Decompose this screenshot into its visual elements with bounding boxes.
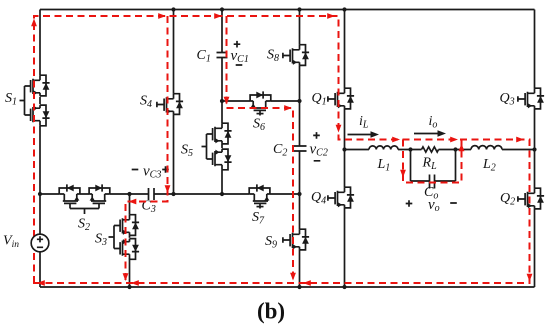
transistor S7 (horizontal on y=194, drain left) bbox=[249, 184, 270, 226]
svg-text:(b): (b) bbox=[257, 299, 285, 324]
transistor Q4 bbox=[311, 187, 354, 208]
wire red S4-S3 branch bbox=[126, 16, 168, 283]
transistor S1 (back-to-back pair on left rail) bbox=[5, 75, 50, 126]
svg-text:iL: iL bbox=[359, 114, 369, 131]
svg-text:Q2: Q2 bbox=[500, 191, 515, 208]
wire right rail segments around Q3 Q2 bbox=[534, 10, 536, 288]
wire line y=194 bbox=[40, 193, 300, 195]
svg-text:Q4: Q4 bbox=[311, 190, 326, 207]
wire S8/C2/S9 branch x=299.5 bbox=[299, 10, 301, 288]
transistor S3 (back-to-back pair, x=129.5) bbox=[95, 215, 139, 260]
label io with arrow bbox=[414, 114, 446, 137]
svg-text:io: io bbox=[429, 114, 438, 131]
wire red main loop bbox=[34, 16, 530, 283]
svg-text:vC1: vC1 bbox=[231, 48, 249, 65]
node dots y=194 bbox=[38, 192, 302, 196]
node dots top rail bbox=[171, 7, 346, 11]
resistor RL bbox=[422, 147, 439, 172]
inductor L1 bbox=[369, 146, 398, 174]
transistor S5 (back-to-back pair on x=222) bbox=[181, 123, 232, 170]
label vo bbox=[406, 197, 457, 214]
svg-text:Q3: Q3 bbox=[500, 91, 515, 108]
label vC2 bbox=[310, 132, 328, 161]
wire top rail bbox=[40, 9, 535, 11]
node dots y=101 bbox=[220, 99, 302, 103]
transistor S6 (horizontal on y=101, drain right) bbox=[250, 91, 271, 133]
wire output line y=149.5 bbox=[345, 149, 535, 151]
source Vin bbox=[3, 234, 49, 252]
wire RL/Co parallel frame bbox=[411, 150, 456, 182]
capacitor C1 bbox=[197, 48, 228, 65]
transistor Q2 bbox=[500, 188, 544, 209]
svg-text:C2: C2 bbox=[273, 142, 287, 159]
label iL with arrow bbox=[348, 114, 380, 138]
wire S4 branch x=173.5 bbox=[173, 10, 175, 195]
svg-text:Vin: Vin bbox=[3, 234, 19, 251]
svg-text:S4: S4 bbox=[140, 94, 152, 111]
capacitor C2 bbox=[273, 142, 307, 159]
node dots output line bbox=[342, 147, 536, 151]
wire mid line y=101 bbox=[222, 100, 300, 102]
transistor Q1 bbox=[312, 88, 355, 109]
capacitor C3 bbox=[142, 188, 156, 215]
svg-text:C1: C1 bbox=[197, 48, 211, 65]
transistor S2 (horizontal back-to-back pair on y=194) bbox=[59, 184, 110, 233]
svg-text:vC3: vC3 bbox=[143, 164, 161, 181]
capacitor Co bbox=[424, 175, 438, 202]
svg-text:Q1: Q1 bbox=[312, 91, 327, 108]
label vC3 bbox=[132, 164, 169, 181]
transistor S8 bbox=[267, 45, 309, 66]
label vC1 bbox=[231, 41, 249, 65]
transistor S9 bbox=[265, 229, 309, 250]
svg-text:S1: S1 bbox=[5, 91, 17, 108]
wire Q1/Q4 branch x=344.5 bbox=[344, 10, 346, 288]
wire bottom rail bbox=[40, 286, 535, 288]
node dots bottom rail bbox=[127, 285, 346, 289]
svg-text:vC2: vC2 bbox=[310, 142, 328, 159]
svg-text:S7: S7 bbox=[252, 210, 265, 227]
wire C1/S5 branch x=222 bbox=[221, 10, 223, 195]
wire S3 branch x=129.5 bbox=[129, 194, 131, 287]
svg-text:L2: L2 bbox=[482, 157, 496, 174]
svg-text:S2: S2 bbox=[78, 217, 90, 234]
wire red C1-S6-C2 branch bbox=[227, 16, 294, 283]
red arrowheads bbox=[31, 13, 532, 286]
wire red RL loop bbox=[403, 140, 462, 183]
svg-text:S9: S9 bbox=[265, 234, 277, 251]
source Vin circle redrawn above red bbox=[31, 234, 49, 252]
svg-text:S3: S3 bbox=[95, 232, 107, 249]
svg-text:S8: S8 bbox=[267, 48, 279, 65]
transistor Q3 bbox=[500, 88, 545, 109]
transistor S4 bbox=[140, 94, 183, 115]
wire left rail segments around S1 and Vin bbox=[39, 10, 41, 288]
svg-text:RL: RL bbox=[422, 156, 438, 173]
inductor L2 bbox=[471, 146, 502, 174]
svg-text:S5: S5 bbox=[181, 143, 193, 160]
svg-text:L1: L1 bbox=[377, 157, 391, 174]
svg-text:S6: S6 bbox=[253, 117, 265, 134]
